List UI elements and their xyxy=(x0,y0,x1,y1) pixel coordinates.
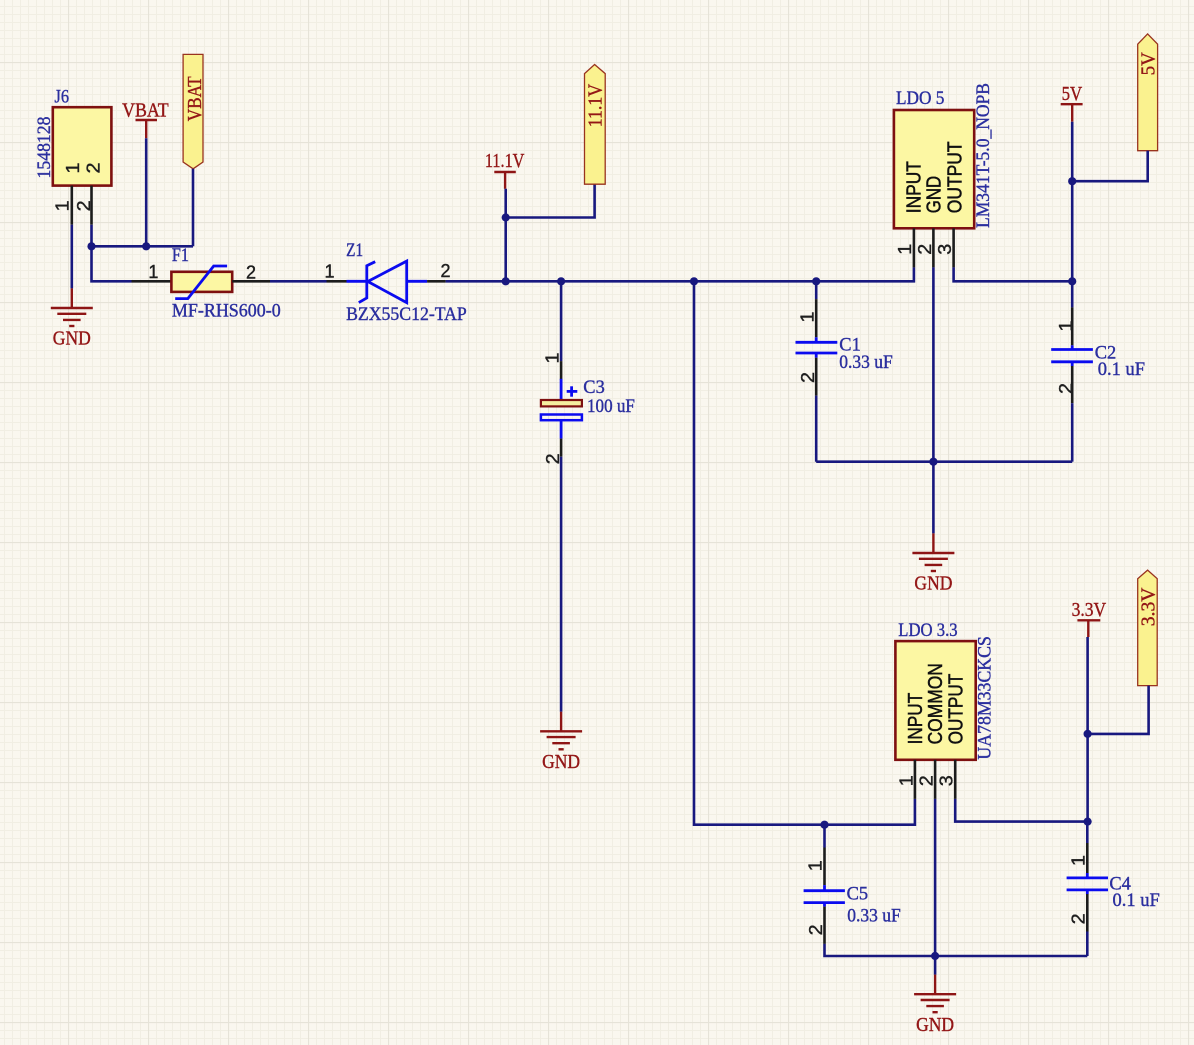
svg-text:C3: C3 xyxy=(583,377,605,398)
ground GND at LDO3.3 xyxy=(914,975,956,1036)
svg-text:1: 1 xyxy=(896,775,916,786)
svg-text:5V: 5V xyxy=(1138,52,1160,76)
power flag 5V xyxy=(1138,34,1160,151)
wire bus down to LDO 3.3 input rail xyxy=(694,281,915,824)
wire VBAT flag down xyxy=(192,169,195,247)
regulator LDO 3.3 xyxy=(895,620,995,760)
svg-text:1: 1 xyxy=(806,860,826,871)
svg-text:11.1V: 11.1V xyxy=(585,83,607,127)
LDO3.3 pin 3 OUTPUT xyxy=(954,760,957,799)
svg-text:LDO 3.3: LDO 3.3 xyxy=(898,620,957,641)
connector J6 xyxy=(34,87,112,186)
wire 5V flag to net xyxy=(1072,151,1148,182)
wire 3.3V bar down to C4 xyxy=(1086,637,1089,822)
wire LDO5 pin3 to 5V net xyxy=(954,267,1073,281)
regulator U? LDO 5 xyxy=(894,83,994,228)
junction mid vertical on bus xyxy=(690,277,698,285)
junction 3.3V flag tee xyxy=(1084,730,1092,738)
wire C5 to bottom rail xyxy=(825,944,1088,956)
svg-text:1548128: 1548128 xyxy=(34,117,55,179)
svg-text:Z1: Z1 xyxy=(346,240,363,261)
svg-text:1: 1 xyxy=(1069,855,1089,866)
ground GND at J6 xyxy=(51,288,93,349)
wire 3.3V flag to net xyxy=(1088,686,1149,734)
svg-text:VBAT: VBAT xyxy=(184,76,206,121)
svg-text:3: 3 xyxy=(937,775,957,786)
LDO5 pin 3 OUTPUT xyxy=(952,228,955,267)
J6 pin 2 xyxy=(90,186,93,225)
fuse F1 xyxy=(132,245,281,322)
wire bus to C3 xyxy=(560,281,563,361)
svg-text:0.33 uF: 0.33 uF xyxy=(839,352,893,373)
svg-text:1: 1 xyxy=(798,312,818,323)
junction 5V flag tee xyxy=(1068,177,1076,185)
svg-text:100 uF: 100 uF xyxy=(587,396,635,417)
svg-text:3.3V: 3.3V xyxy=(1072,599,1107,621)
svg-text:11.1V: 11.1V xyxy=(485,150,525,172)
svg-text:F1: F1 xyxy=(172,245,189,266)
capacitor C5 xyxy=(804,848,901,944)
ground GND at C3 xyxy=(540,712,582,773)
junction bottom rail xyxy=(931,952,939,960)
svg-text:J6: J6 xyxy=(55,87,70,108)
svg-text:COMMON: COMMON xyxy=(925,663,947,744)
svg-text:5V: 5V xyxy=(1062,83,1083,105)
svg-text:0.1 uF: 0.1 uF xyxy=(1113,890,1160,911)
svg-text:1: 1 xyxy=(53,200,73,211)
svg-text:GND: GND xyxy=(924,176,946,213)
svg-text:2: 2 xyxy=(1056,383,1076,394)
svg-text:OUTPUT: OUTPUT xyxy=(945,674,967,745)
wire tee to 11.1V flag xyxy=(506,185,595,218)
junction 5V net at C2 xyxy=(1068,277,1076,285)
svg-text:LM341T-5.0_NOPB: LM341T-5.0_NOPB xyxy=(973,83,994,228)
svg-text:3.3V: 3.3V xyxy=(1137,587,1159,626)
svg-text:2: 2 xyxy=(806,924,826,935)
svg-text:2: 2 xyxy=(440,261,450,281)
svg-text:C5: C5 xyxy=(847,884,869,905)
wire main 11.1V bus xyxy=(446,267,914,281)
capacitor C1 xyxy=(796,299,893,396)
ground GND at LDO5 xyxy=(912,533,954,594)
wire gnd rail C1-C2 xyxy=(816,460,1072,463)
junction LDO5 gnd rail xyxy=(929,458,937,466)
junction at J6 pin2/VBAT xyxy=(87,242,95,250)
wire C5 tap down xyxy=(823,825,826,848)
svg-text:1: 1 xyxy=(895,244,915,255)
svg-text:BZX55C12-TAP: BZX55C12-TAP xyxy=(346,304,467,325)
svg-text:2: 2 xyxy=(84,163,104,174)
capacitor C2 xyxy=(1051,281,1145,461)
junction C1 tap on bus xyxy=(812,277,820,285)
power port 11.1V bar xyxy=(485,150,525,189)
junction C5 tap xyxy=(820,821,828,829)
wire LDO3.3 pin3 to 3.3V net xyxy=(955,799,1087,822)
wire bus to C1 xyxy=(815,281,818,299)
svg-text:3: 3 xyxy=(935,244,955,255)
wire J6 pin1 to ground xyxy=(71,225,74,289)
svg-text:1: 1 xyxy=(542,353,562,364)
svg-text:MF-RHS600-0: MF-RHS600-0 xyxy=(172,301,281,322)
svg-text:VBAT: VBAT xyxy=(122,99,169,121)
power flag 3.3V xyxy=(1137,570,1159,686)
power port VBAT bar xyxy=(122,99,169,138)
junction 3.3V net at C4 xyxy=(1084,818,1092,826)
wire C1 to gnd rail xyxy=(815,396,818,462)
svg-text:LDO 5: LDO 5 xyxy=(896,88,944,109)
svg-text:1: 1 xyxy=(148,262,158,282)
wire J6 pin2 down and right to fuse xyxy=(92,225,132,282)
junction 11.1V on bus xyxy=(502,277,510,285)
svg-text:1: 1 xyxy=(63,163,83,174)
junction at VBAT stem xyxy=(142,242,150,250)
svg-text:2: 2 xyxy=(74,200,94,211)
wire fuse to zener xyxy=(270,280,327,283)
LDO3.3 pin 2 COMMON xyxy=(934,760,937,799)
junction C3 tap on bus xyxy=(557,277,565,285)
wire 11.1V bar to tap xyxy=(504,189,507,281)
svg-text:2: 2 xyxy=(1069,913,1089,924)
svg-text:OUTPUT: OUTPUT xyxy=(945,142,967,214)
junction 11.1V tee xyxy=(502,213,510,221)
wire LDO3.3 pin2 to ground xyxy=(934,799,937,975)
svg-text:0.33 uF: 0.33 uF xyxy=(847,905,901,926)
LDO3.3 pin 1 INPUT xyxy=(914,760,917,799)
wire C3 to ground xyxy=(560,457,563,712)
J6 pin 1 xyxy=(71,186,74,225)
svg-text:UA78M33CKCS: UA78M33CKCS xyxy=(974,636,995,760)
svg-text:2: 2 xyxy=(916,775,936,786)
svg-text:2: 2 xyxy=(246,262,256,282)
wire 5V bar down to C2 xyxy=(1071,122,1074,282)
LDO5 pin 1 INPUT xyxy=(913,228,916,267)
svg-text:2: 2 xyxy=(798,372,818,383)
wire LDO5 pin2 to gnd rail xyxy=(932,267,935,533)
zener diode Z1 xyxy=(327,240,467,325)
wire VBAT horizontal net xyxy=(92,245,194,248)
power flag 11.1V xyxy=(585,65,607,185)
svg-text:INPUT: INPUT xyxy=(903,161,925,213)
LDO5 pin 2 GND xyxy=(932,228,935,267)
capacitor C3 xyxy=(541,361,635,457)
capacitor C4 xyxy=(1067,822,1160,956)
svg-text:INPUT: INPUT xyxy=(905,693,927,745)
svg-text:0.1 uF: 0.1 uF xyxy=(1098,359,1145,380)
power port 5V bar xyxy=(1061,83,1083,122)
svg-text:1: 1 xyxy=(324,261,334,281)
power flag VBAT xyxy=(183,54,206,168)
svg-text:1: 1 xyxy=(1056,321,1076,332)
power port 3.3V bar xyxy=(1072,599,1107,637)
svg-text:2: 2 xyxy=(915,244,935,255)
wire VBAT bar to net xyxy=(145,138,148,246)
